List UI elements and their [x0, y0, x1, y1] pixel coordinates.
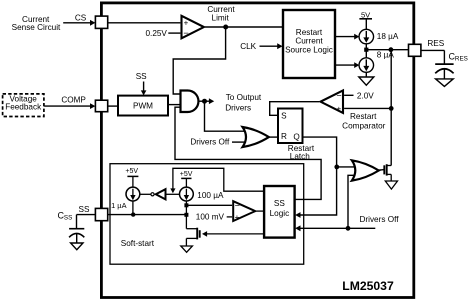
wire SS arrow into PWM [141, 82, 147, 96]
wire current limit to AND gate [173, 27, 225, 94]
node SS pin label [79, 205, 90, 214]
wire junction to RES pin [366, 49, 408, 51]
svg-text:SS: SS [136, 72, 147, 81]
capacitor CSS [58, 210, 85, 243]
svg-text:Restart: Restart [350, 112, 377, 121]
2.0V reference label [357, 91, 374, 100]
5V supply [359, 11, 372, 30]
100uA label [197, 191, 224, 200]
svg-text:Drivers: Drivers [225, 104, 251, 113]
node Q junction [334, 165, 339, 170]
wire 100mV to SS comparator plus [227, 216, 232, 218]
node current source junction [364, 48, 368, 52]
svg-text:SS: SS [64, 215, 72, 222]
voltage feedback block [3, 94, 44, 117]
svg-text:−: − [336, 90, 341, 100]
latch restart SR [278, 109, 303, 144]
svg-text:0.25V: 0.25V [145, 29, 167, 38]
ground below CSS [71, 243, 83, 250]
svg-text:Sense Circuit: Sense Circuit [12, 23, 61, 32]
drivers off label right [360, 215, 400, 224]
wire latch Q to SS logic [300, 137, 337, 215]
svg-text:100 µA: 100 µA [197, 191, 224, 200]
wire AND junction to OR1 [205, 101, 246, 131]
wire restart comparator output to latch S [270, 102, 320, 116]
wire 2.0V to restart comparator [344, 94, 353, 96]
wire drivers off to OR1 [232, 141, 245, 143]
OR gate drivers off 1 [243, 127, 269, 147]
svg-text:Latch: Latch [290, 152, 310, 161]
node SS rail junction 1 [131, 212, 135, 216]
restart latch label [288, 144, 315, 161]
wire AND output [199, 100, 205, 102]
1uA label [111, 201, 126, 210]
node drivers off junction [346, 226, 351, 231]
svg-text:Comparator: Comparator [342, 122, 386, 131]
svg-text:RES: RES [455, 55, 468, 62]
wire inverter to 100uA [166, 193, 179, 195]
soft-start label [121, 239, 155, 248]
svg-text:Current: Current [207, 5, 235, 14]
current source I4 100uA [180, 187, 194, 201]
SS label above PWM [136, 72, 147, 81]
svg-text:LM25037: LM25037 [342, 279, 394, 293]
op-amp current limit comparator [182, 16, 204, 39]
svg-text:+5V: +5V [180, 171, 193, 178]
node CS label [75, 13, 87, 22]
inverter buffer [151, 189, 166, 199]
PWM block [118, 96, 168, 116]
wire Q junction to OR2 top [337, 166, 354, 168]
wire to output drivers arrow [205, 98, 215, 104]
svg-text:SS: SS [79, 205, 90, 214]
node AND output junction [202, 99, 207, 104]
current source I1 18uA [359, 29, 374, 44]
wire 0.25V to comparator [168, 32, 180, 34]
svg-text:2.0V: 2.0V [357, 91, 374, 100]
wire COMP input [44, 103, 95, 109]
svg-text:Source Logic: Source Logic [285, 45, 333, 54]
svg-text:+: + [336, 104, 341, 113]
wire RES rail down [390, 50, 392, 166]
node 100uA junction [184, 203, 188, 207]
svg-text:Drivers Off: Drivers Off [190, 137, 230, 146]
wire 100uA down [185, 201, 187, 229]
svg-text:Feedback: Feedback [5, 103, 42, 112]
svg-text:CS: CS [75, 13, 87, 22]
svg-text:Logic: Logic [270, 209, 290, 218]
pin COMP [95, 100, 107, 112]
soft-start block box [110, 164, 304, 265]
wire SS external [77, 215, 96, 229]
ground below CRES [436, 79, 454, 87]
wire CLK arrow [260, 43, 283, 49]
restart current source logic block [283, 10, 335, 78]
wire RES external [421, 50, 445, 64]
op-amp SS comparator [233, 200, 255, 222]
100mV reference label [196, 213, 225, 222]
arrow into SS logic from latch [295, 212, 300, 218]
svg-text:18 µA: 18 µA [377, 32, 399, 41]
current limit label [207, 5, 235, 23]
ground below Q2 [181, 246, 193, 252]
svg-text:PWM: PWM [133, 101, 153, 110]
wire CS input [63, 20, 95, 26]
svg-text:−: − [183, 28, 188, 38]
capacitor CRES [435, 51, 468, 79]
svg-text:R: R [281, 132, 287, 141]
0.25V reference label [145, 29, 167, 38]
wire comparator output to restart logic [205, 26, 283, 28]
node SS rail junction 2 [184, 213, 188, 217]
drivers off label left [190, 137, 230, 146]
svg-text:RES: RES [427, 39, 444, 48]
LM25037 part label [342, 279, 394, 293]
ground below 8uA [359, 77, 374, 85]
wire SS logic to AND gate [175, 107, 321, 199]
wire SS logic control arrow onto soft-start [170, 168, 264, 193]
CLK label [240, 42, 256, 51]
node current limit junction [223, 25, 228, 30]
svg-text:+: + [235, 213, 240, 222]
OR gate 2 [352, 160, 379, 180]
wire 100uA junction to SS comparator minus [186, 204, 232, 206]
+5V supply left [125, 168, 138, 187]
svg-text:S: S [281, 111, 287, 120]
node COMP label [61, 95, 86, 104]
transistor Q2 soft-start [186, 228, 199, 246]
IC boundary LM25037 [101, 3, 413, 298]
wire drivers off to SS logic [295, 225, 375, 231]
ground below Q1 [385, 181, 397, 189]
svg-text:CLK: CLK [240, 42, 256, 51]
svg-text:Q: Q [293, 133, 299, 142]
svg-text:COMP: COMP [61, 95, 86, 104]
svg-text:+5V: +5V [125, 168, 138, 175]
+5V supply right [180, 171, 193, 187]
transistor Q1 [384, 164, 391, 181]
wire COMP pin to PWM [108, 105, 118, 107]
wire logic to 8uA source [335, 62, 359, 68]
wire SS logic to Q2 gate [202, 231, 264, 237]
wire SS comparator to SS logic [256, 210, 264, 212]
current sense circuit label [12, 15, 61, 32]
op-amp restart comparator [321, 90, 344, 113]
wire OR2 to Q1 gate [379, 169, 384, 172]
pin CS [95, 16, 107, 28]
8uA label [377, 50, 395, 59]
svg-text:Drivers Off: Drivers Off [360, 215, 400, 224]
svg-text:−: − [235, 200, 240, 210]
wire OR1 to latch R [269, 136, 278, 138]
restart comparator label [342, 112, 386, 131]
18uA label [377, 32, 399, 41]
wire SS rail [108, 214, 187, 216]
pin RES [409, 44, 421, 56]
wire CS pin to comparator [108, 22, 181, 24]
to output drivers label [225, 93, 262, 113]
wire OR2 bottom input [348, 175, 355, 228]
svg-text:100 mV: 100 mV [196, 213, 225, 222]
AND gate output drivers [181, 91, 199, 113]
node RES junction [389, 47, 394, 52]
wire restart comparator plus to RES rail [344, 107, 391, 109]
svg-text:+: + [184, 19, 189, 28]
wire PWM to AND gate [168, 104, 181, 106]
wire 1uA to SS rail [132, 201, 134, 215]
pin SS [95, 208, 107, 220]
svg-text:Current: Current [295, 37, 323, 46]
current source I2 8uA [359, 58, 374, 73]
svg-text:To Output: To Output [226, 93, 262, 102]
node RES label [427, 39, 444, 48]
wire between current sources [365, 44, 367, 58]
wire 8uA to ground [365, 72, 367, 77]
node RES rail junction [389, 106, 394, 111]
current source I3 1uA [126, 187, 140, 201]
svg-text:SS: SS [274, 199, 285, 208]
SS logic block [264, 186, 295, 238]
svg-text:Soft-start: Soft-start [121, 239, 155, 248]
wire 1uA to inverter [140, 193, 151, 195]
wire logic to 18uA source [335, 34, 359, 40]
svg-text:1 µA: 1 µA [111, 201, 126, 210]
svg-text:Limit: Limit [212, 14, 230, 23]
